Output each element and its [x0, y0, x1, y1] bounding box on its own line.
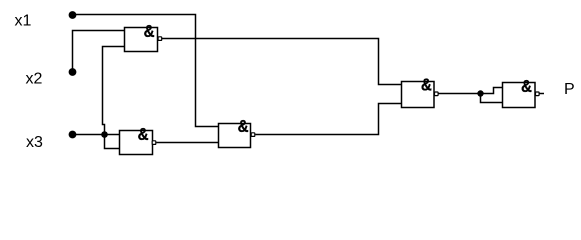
- wire U3 output to U4 input 2: [255, 104, 402, 135]
- wire node N2 to U5 input 1: [481, 88, 504, 94]
- wire U5 output stub: [540, 93, 545, 95]
- input terminal x1: [69, 11, 77, 19]
- svg-text:&: &: [421, 74, 432, 95]
- wire U2 output to U3 input 2: [156, 142, 218, 144]
- wire node N1 to U1 input 2: [103, 47, 126, 135]
- wire node N2 to U5 input 2: [481, 94, 504, 103]
- wire x3 to U2 input 1: [73, 134, 120, 136]
- NAND gate U4 body: [402, 74, 439, 107]
- svg-text:P: P: [564, 81, 575, 98]
- svg-text:&: &: [238, 116, 249, 137]
- svg-text:&: &: [138, 124, 149, 145]
- wire U1 output to U4 input 1: [162, 39, 402, 85]
- input terminal x3: [69, 131, 77, 139]
- NAND gate U1 body: [125, 21, 162, 52]
- wire node N1 to U2 input 2: [105, 135, 120, 149]
- svg-text:x2: x2: [26, 71, 43, 88]
- input terminal x2: [69, 68, 77, 76]
- svg-text:x3: x3: [26, 134, 43, 151]
- wire U4 output to node N2: [439, 93, 481, 95]
- junction node N2: [477, 90, 483, 96]
- NAND gate U3 body: [219, 116, 255, 148]
- svg-text:&: &: [144, 21, 155, 42]
- junction node N1: [101, 131, 108, 138]
- wire x1 to U3 input 1: [73, 15, 219, 127]
- NAND gate U2 body: [120, 124, 156, 155]
- svg-text:&: &: [521, 76, 532, 97]
- wire x2 to U1 input 1: [73, 31, 126, 72]
- svg-text:x1: x1: [15, 12, 32, 29]
- NAND gate U5 body: [503, 76, 540, 108]
